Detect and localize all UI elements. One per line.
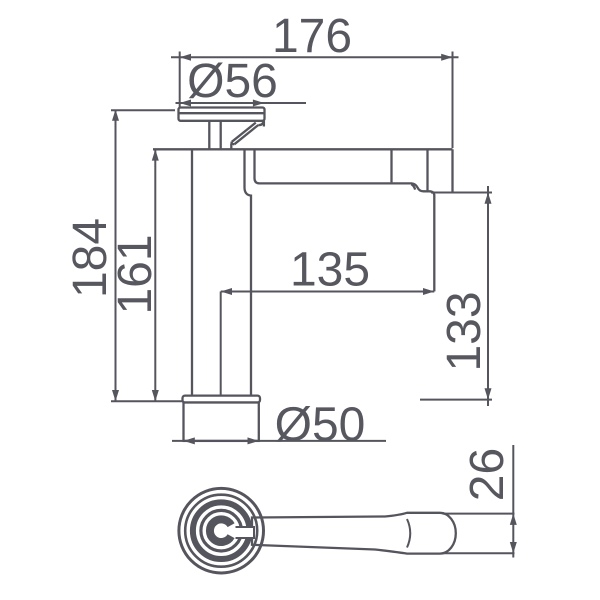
dimension Ø56 text (187, 55, 278, 108)
column left edge (191, 149, 193, 395)
handle base thick ring 3 (193, 502, 250, 559)
svg-text:161: 161 (109, 234, 162, 314)
dimension 135 text (290, 244, 370, 297)
dimension Ø50 line (172, 437, 386, 444)
body front contour with spout lip (255, 149, 435, 291)
dimension Ø50 text (275, 399, 366, 452)
base plate body (184, 403, 259, 441)
body top line (153, 148, 453, 150)
dimension 161 line (152, 149, 159, 401)
svg-text:Ø50: Ø50 (275, 399, 366, 452)
handle base ring 4 (201, 510, 242, 551)
handle base outer circle (179, 488, 264, 573)
extension line top of 133 (431, 192, 492, 194)
keyway notch (234, 526, 254, 539)
dimension 176 line (171, 54, 459, 61)
extension line top of 26 (443, 513, 515, 515)
spout lip fold crease (411, 184, 415, 189)
dimension 184 line (112, 110, 119, 402)
extension line right of 176 (452, 52, 454, 149)
handle cap plate (179, 108, 265, 121)
dimension 176 text (272, 10, 352, 63)
band joint vertical 1 (390, 149, 392, 182)
handle base ring 2 (185, 495, 257, 567)
extension line bottom of 184 and 161 (111, 400, 183, 402)
extension line top of 184 (111, 109, 175, 111)
dimension 161 text (109, 234, 162, 314)
extension line bottom of 133 (420, 399, 492, 401)
hub C ring (210, 519, 231, 542)
svg-text:133: 133 (438, 291, 491, 371)
base plate top strip (183, 396, 261, 403)
extension line bottom of 26 (443, 552, 515, 554)
dimension 133 line (485, 186, 492, 406)
lever arm plan view (252, 513, 456, 554)
body back edge (451, 149, 453, 192)
dimension Ø56 line (176, 100, 307, 107)
handle stem (209, 121, 231, 149)
svg-text:26: 26 (461, 448, 514, 501)
column centerline extension (220, 292, 222, 396)
svg-text:176: 176 (272, 10, 352, 63)
dimension 184 text (64, 218, 117, 298)
band joint vertical 2 (426, 149, 428, 190)
handle lever arm (232, 121, 264, 145)
svg-text:Ø56: Ø56 (187, 55, 278, 108)
column fold line and right edge (245, 149, 252, 395)
dimension 135 line (221, 288, 435, 295)
svg-text:135: 135 (290, 244, 370, 297)
dimension 26 text (461, 448, 514, 501)
dimension 26 line (510, 445, 517, 558)
extension line left of 176 (179, 52, 181, 108)
dimension 133 text (438, 291, 491, 371)
